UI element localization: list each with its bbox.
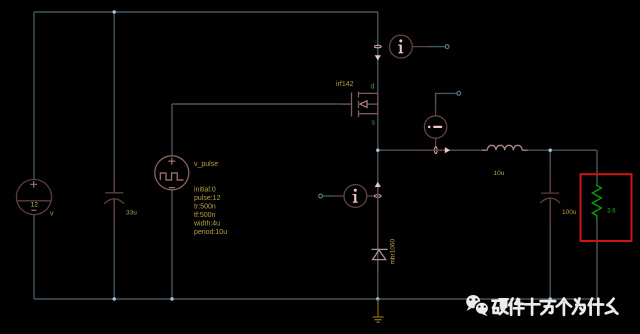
wire top rail V+ (34, 11, 378, 13)
char shi (ten) (525, 299, 540, 315)
pulse source V2 (155, 156, 189, 190)
junction dot at (114,12) (113, 10, 116, 13)
wire left branch (source V1) (33, 12, 35, 299)
char wan (ten thousand) (541, 301, 556, 314)
wire bottom rail (0V) (34, 298, 597, 300)
junction switch node (376, 149, 379, 152)
svg-text:12: 12 (31, 202, 39, 209)
junction bottom pulse (170, 297, 173, 300)
char wei (for) (573, 299, 585, 314)
wire pulse source branch (171, 104, 173, 299)
char shen (what) (589, 299, 603, 315)
watermark wechat logo (466, 295, 488, 316)
char ge (unit) (557, 299, 571, 315)
svg-text:pulse:12: pulse:12 (194, 195, 221, 202)
svg-text:v_pulse: v_pulse (194, 161, 218, 168)
wire drain branch (377, 12, 379, 93)
svg-text:initial:0: initial:0 (194, 187, 216, 194)
wire gate (172, 103, 342, 105)
svg-text:33u: 33u (126, 210, 137, 217)
svg-text:period:10u: period:10u (194, 229, 227, 236)
svg-text:irf142: irf142 (336, 81, 354, 88)
svg-text:3.6: 3.6 (607, 208, 616, 214)
voltage source V1 (16, 179, 51, 214)
current probe P1 (drain current) (374, 35, 449, 60)
capacitor C1 33u (104, 170, 124, 226)
diode D1 mbr1060 (371, 188, 387, 272)
svg-text:tf:500n: tf:500n (194, 212, 216, 219)
svg-text:v: v (50, 211, 54, 218)
capacitor C2 100u (540, 170, 560, 226)
highlight box around load resistor (581, 174, 632, 241)
resistor R1 (load) (592, 182, 601, 219)
svg-text:d: d (371, 84, 375, 91)
wire capacitor C2 branch (549, 150, 551, 299)
junction bottom diode/ground (376, 297, 379, 300)
junction inductor-cap node (549, 149, 552, 152)
mosfet Q1 irf142 (342, 92, 378, 117)
junction bottom cap C1 (113, 297, 116, 300)
svg-text:mbr1060: mbr1060 (390, 238, 397, 264)
wire switch node to load (378, 149, 597, 151)
current probe P3 (output current) (413, 92, 461, 154)
wire source / diode branch (377, 114, 379, 299)
svg-text:tr:500n: tr:500n (194, 204, 216, 211)
svg-text:s: s (372, 120, 376, 127)
wire capacitor C1 branch (113, 12, 115, 299)
ground (373, 299, 384, 322)
svg-text:100u: 100u (562, 209, 577, 216)
wire load branch (596, 150, 598, 299)
char me (606, 299, 618, 314)
current probe P2 (diode current) (319, 182, 381, 208)
char jian (piece) (509, 299, 523, 315)
svg-text:width:4u: width:4u (193, 221, 220, 228)
svg-text:10u: 10u (494, 170, 505, 177)
watermark text 硬件十万个为什么 (493, 299, 618, 315)
inductor L1 10u (482, 145, 528, 150)
junction bottom cap C2 (549, 297, 552, 300)
char ying (hard) (493, 299, 508, 314)
